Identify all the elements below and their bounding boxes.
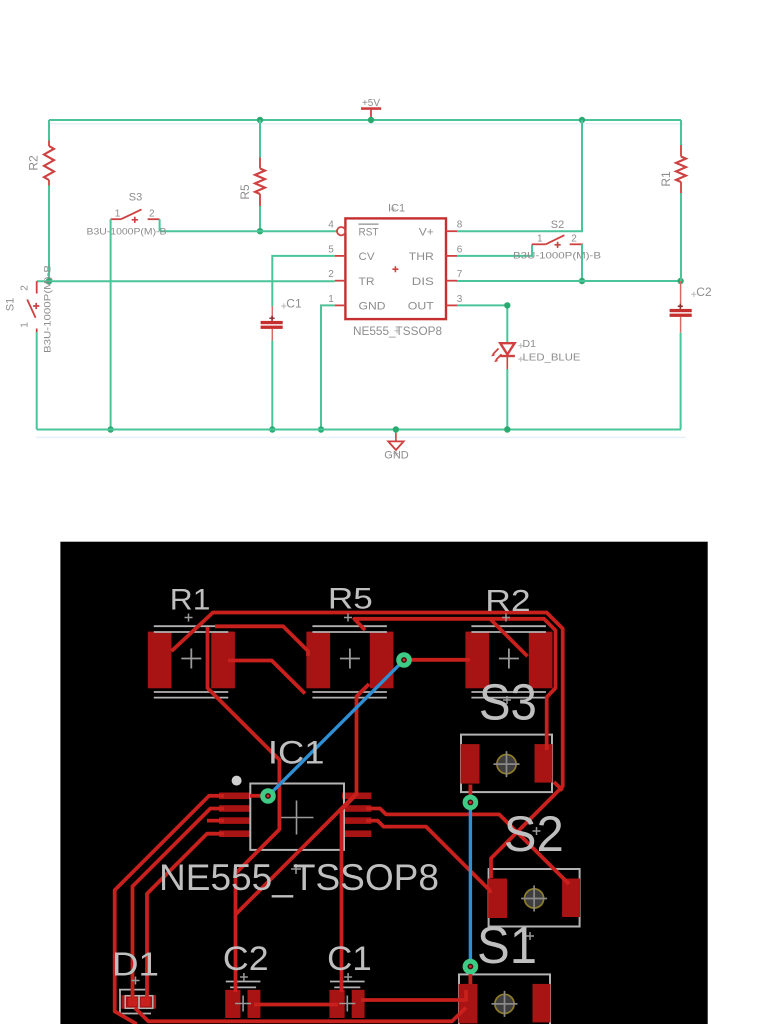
wire D1 to ground rail xyxy=(506,369,508,430)
resistor R5 footprint xyxy=(306,626,393,697)
wire OUT net xyxy=(457,305,507,342)
via at S1 xyxy=(463,959,479,975)
wire R5 bottom xyxy=(259,206,261,231)
wire R5 top xyxy=(259,120,261,158)
trace via to R2 left pad xyxy=(404,658,470,662)
trace R5 right pad down to IC1 pin8 xyxy=(357,684,370,796)
capacitor C1 footprint xyxy=(329,973,364,1018)
svg-text:IC1: IC1 xyxy=(268,735,325,771)
svg-text:R1: R1 xyxy=(659,171,673,187)
switch S2 footprint xyxy=(488,869,580,927)
svg-text:B3U-1000P(M)-B: B3U-1000P(M)-B xyxy=(513,250,601,260)
trace C2 to C1 xyxy=(254,1003,338,1007)
trace IC1 pin7 to S2 right pad xyxy=(366,809,569,885)
switch S1 footprint xyxy=(459,974,551,1024)
wire left rail upper xyxy=(48,120,50,141)
trace IC1 pad8 long diagonal to C2 join xyxy=(236,794,357,915)
svg-text:THR: THR xyxy=(409,251,434,263)
label R5 xyxy=(328,583,373,622)
svg-text:7: 7 xyxy=(457,269,463,280)
svg-text:RST: RST xyxy=(359,226,379,238)
trace IC1 pad8 to C1 left pad xyxy=(342,796,356,992)
wire GND pin1 net xyxy=(321,305,335,429)
svg-text:IC1: IC1 xyxy=(388,203,405,215)
ground symbol GND xyxy=(384,430,409,462)
svg-text:B3U-1000P(M)-B: B3U-1000P(M)-B xyxy=(87,227,167,237)
trace R1 bypass via to C2 left pad xyxy=(208,627,280,992)
wire R1 top xyxy=(680,120,682,145)
label R2 xyxy=(485,583,530,622)
svg-text:GND: GND xyxy=(359,301,386,313)
wire R1 bottom xyxy=(680,193,682,281)
wire ground rail xyxy=(37,429,681,431)
junction ground rail at S3 xyxy=(107,426,113,432)
svg-text:S3: S3 xyxy=(129,192,142,204)
junction DIS at R1 xyxy=(677,278,683,284)
wire S3 pin2 drop xyxy=(159,219,161,231)
trace S3 left pad to via xyxy=(468,785,472,797)
LED D1 xyxy=(491,338,581,369)
clip group open xyxy=(112,583,580,1024)
svg-text:S2: S2 xyxy=(504,806,564,862)
wire C1 to ground rail xyxy=(271,341,273,430)
resistor R1 footprint xyxy=(148,626,235,697)
svg-text:OUT: OUT xyxy=(408,301,434,313)
junction DIS at S2 xyxy=(579,278,585,284)
label S1 xyxy=(477,917,537,975)
capacitor C2 footprint xyxy=(225,973,260,1018)
LED D1 footprint xyxy=(119,990,156,1014)
junction top rail at R5 xyxy=(257,117,263,123)
svg-text:1: 1 xyxy=(115,209,121,220)
wire V+ net xyxy=(457,120,582,231)
wire C2 to ground rail xyxy=(680,333,682,430)
svg-text:1: 1 xyxy=(328,294,334,305)
trace S3 right pad joint xyxy=(554,782,563,791)
capacitor C1 xyxy=(261,296,302,340)
faint guide line top xyxy=(49,123,684,125)
svg-text:6: 6 xyxy=(457,244,463,255)
trace IC1 pin6 to S2 left pad xyxy=(366,821,490,893)
svg-text:C2: C2 xyxy=(696,285,712,299)
svg-text:NE555_TSSOP8: NE555_TSSOP8 xyxy=(159,857,439,898)
svg-text:1: 1 xyxy=(537,234,543,245)
svg-text:4: 4 xyxy=(328,220,334,231)
trace H2 R5 right pad to S3 right pad xyxy=(354,619,555,750)
svg-text:S1: S1 xyxy=(5,298,17,311)
resistor R1 xyxy=(659,145,686,193)
resistor R5 xyxy=(238,158,265,207)
label S3 xyxy=(479,674,537,731)
label NE555_TSSOP8 xyxy=(159,857,439,898)
svg-text:3: 3 xyxy=(457,294,463,305)
power symbol +5V xyxy=(361,98,381,120)
via at S3 xyxy=(463,795,479,811)
via near R5 xyxy=(396,652,412,668)
junction ground rail at GND symbol xyxy=(393,426,399,432)
svg-text:TR: TR xyxy=(359,276,375,288)
svg-text:C1: C1 xyxy=(327,940,372,978)
trace H2 branch to R2 right pad xyxy=(490,619,528,657)
svg-text:B3U-1000P(M)-B: B3U-1000P(M)-B xyxy=(43,265,53,353)
trace R1 top link to R5 left pad xyxy=(215,626,308,656)
wire TR net xyxy=(37,280,335,282)
svg-text:1: 1 xyxy=(20,322,31,328)
switch S3 footprint xyxy=(461,735,553,793)
junction TR at left rail xyxy=(46,278,52,284)
trace R1 mid link to R5 left pad xyxy=(228,661,305,694)
via at IC1 xyxy=(260,788,276,804)
svg-text:5: 5 xyxy=(328,244,334,255)
svg-text:D1: D1 xyxy=(112,946,159,983)
label R1 xyxy=(170,584,211,622)
svg-text:DIS: DIS xyxy=(412,276,434,288)
junction top rail at +5V xyxy=(368,117,374,123)
trace IC1 via stub to pad1 xyxy=(250,794,262,798)
wire S2 pin2 drop xyxy=(581,244,583,281)
svg-text:2: 2 xyxy=(20,285,31,291)
svg-text:R2: R2 xyxy=(27,155,41,171)
trace C1 to S1 left pad xyxy=(361,990,466,1000)
svg-text:CV: CV xyxy=(359,251,376,263)
junction RST at R5 xyxy=(257,228,263,234)
trace IC1 pin1 fanout to bottom edge xyxy=(115,796,224,1024)
svg-text:R2: R2 xyxy=(485,583,530,618)
svg-text:D1: D1 xyxy=(523,338,537,350)
capacitor C2 xyxy=(670,281,712,333)
junction ground rail at C1 xyxy=(269,426,275,432)
faint guide line bottom xyxy=(36,436,686,438)
blue trace via S3 to via S1 xyxy=(469,810,472,960)
svg-text:V+: V+ xyxy=(419,226,434,238)
svg-text:GND: GND xyxy=(384,450,409,462)
svg-text:R5: R5 xyxy=(238,184,252,200)
wire S1 to ground rail xyxy=(36,332,38,429)
blue trace via R5 to via IC1 xyxy=(269,665,400,796)
svg-text:C2: C2 xyxy=(223,940,269,978)
junction ground rail at pin1 wire xyxy=(318,426,324,432)
resistor R2 footprint xyxy=(465,626,552,697)
svg-text:S1: S1 xyxy=(477,917,537,975)
resistor R2 xyxy=(27,141,55,186)
wire left rail lower xyxy=(48,186,50,282)
PCB board background xyxy=(60,542,707,1024)
svg-text:R1: R1 xyxy=(170,584,211,617)
wire CV net xyxy=(272,256,335,307)
label D1 xyxy=(112,946,159,985)
junction ground rail at D1 xyxy=(504,426,510,432)
junction top rail at V+ drop xyxy=(579,117,585,123)
trace IC1 pin3 stub xyxy=(207,819,224,823)
trace IC1 pin4 fanout to D1 right pad xyxy=(147,834,224,998)
svg-text:8: 8 xyxy=(457,220,463,231)
wire S3 pin1 to ground rail xyxy=(110,219,112,429)
svg-text:2: 2 xyxy=(571,234,577,245)
svg-text:2: 2 xyxy=(149,209,155,220)
junction OUT corner xyxy=(504,302,510,308)
svg-text:R5: R5 xyxy=(328,583,373,616)
svg-text:LED_BLUE: LED_BLUE xyxy=(523,352,581,364)
trace H1 R1 left pad to S3 right pad via R2 corner xyxy=(172,613,563,879)
svg-text:S2: S2 xyxy=(551,219,564,231)
IC IC1 footprint xyxy=(219,776,371,850)
svg-text:S3: S3 xyxy=(479,674,537,731)
label S2 xyxy=(504,806,564,862)
wire THR net xyxy=(457,244,532,256)
switch S3 xyxy=(87,192,167,237)
switch S2 xyxy=(513,219,601,260)
svg-text:+5V: +5V xyxy=(362,98,380,109)
trace IC1 pin2 fanout to D1 left pad xyxy=(133,809,225,999)
switch S1 xyxy=(5,265,53,353)
svg-text:2: 2 xyxy=(328,269,334,280)
trace S1 via to left pad xyxy=(468,974,472,984)
wire DIS net xyxy=(457,280,681,282)
wire +5V top rail xyxy=(49,119,681,121)
wire RST net xyxy=(160,230,337,232)
svg-text:C1: C1 xyxy=(286,296,302,310)
trace bottom bus D1 to S1 xyxy=(135,1008,466,1022)
IC U1 NE555_TSSOP8 xyxy=(328,203,463,338)
svg-text:NE555_TSSOP8: NE555_TSSOP8 xyxy=(353,324,442,338)
